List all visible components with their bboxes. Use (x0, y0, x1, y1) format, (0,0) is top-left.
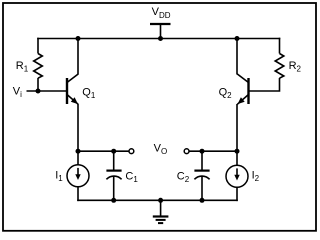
wire Q1 emitter down (77, 104, 79, 165)
wire R2 to Q2 base (249, 78, 280, 91)
node dot Vi base node (36, 89, 41, 94)
wire rail to R1 (37, 38, 39, 54)
wire Q2 collector (236, 39, 238, 75)
wire Vi to Q1 base (27, 90, 68, 92)
transistor Q1 (67, 74, 78, 104)
wire right output (189, 150, 238, 152)
node junction dot Q1 collector on rail (76, 36, 81, 41)
terminal open circle left (129, 149, 134, 154)
node dot C2 bottom (200, 198, 205, 203)
transistor Q2 (237, 74, 248, 104)
node junction dot Q2 collector on rail (235, 36, 240, 41)
current source I1 (67, 165, 89, 187)
wire Q2 emitter down (236, 104, 238, 166)
power VDD symbol bar (150, 23, 171, 25)
wire R1 to base node (37, 78, 39, 92)
terminal open circle right (184, 149, 189, 154)
capacitor C1 (106, 151, 121, 200)
node dot Q2 emitter / output right (235, 149, 240, 154)
wire bottom rail (77, 199, 238, 201)
node dot Q1 emitter / output left (76, 149, 81, 154)
ground (153, 200, 169, 223)
current source I2 (226, 165, 248, 187)
wire rail to R2 (279, 38, 281, 54)
node dot ground junction (158, 198, 163, 203)
node dot C2 top (200, 149, 205, 154)
resistor R1 (34, 54, 43, 79)
wire I1 bottom (77, 187, 79, 201)
wire VDD rail (37, 38, 280, 40)
wire Q1 collector (77, 39, 79, 75)
capacitor C2 (194, 151, 209, 200)
node dot C1 top (111, 149, 116, 154)
wire I2 bottom (236, 187, 238, 201)
wire VDD stub (160, 24, 162, 39)
node dot C1 bottom (111, 198, 116, 203)
node junction dot VDD stub (158, 36, 163, 41)
wire left output (78, 150, 129, 152)
resistor R2 (275, 54, 284, 79)
